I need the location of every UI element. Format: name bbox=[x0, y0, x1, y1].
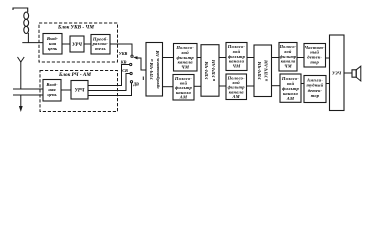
dashed block Блок УКВ-ЧМ bbox=[39, 23, 118, 62]
antenna W2 (AM whip) bbox=[18, 57, 25, 89]
svg-text:АМ: АМ bbox=[286, 96, 295, 101]
svg-text:АМ: АМ bbox=[231, 94, 240, 99]
wire switch arm to УПЧ-ЧМ и преобразователь АМ bbox=[137, 58, 146, 70]
wire whip to input circuit AM bbox=[13, 88, 43, 90]
svg-text:ЧМ: ЧМ bbox=[233, 64, 242, 69]
dashed block Блок РЧ-АМ bbox=[40, 71, 118, 112]
wire bbox=[84, 43, 91, 45]
wire U3 to FM filter 3 bbox=[272, 57, 280, 59]
svg-text:Блок УКВ - ЧМ: Блок УКВ - ЧМ bbox=[57, 24, 94, 30]
box AM band filter 1 (Полосовой фильтр канала АМ) bbox=[173, 75, 194, 101]
svg-text:УПЧ-ЧМ и: УПЧ-ЧМ и bbox=[149, 59, 154, 80]
wire U2 to FM filter 2 bbox=[219, 57, 226, 59]
wire FM filter 3 to frequency detector bbox=[297, 57, 304, 59]
loudspeaker BA1 bbox=[352, 66, 361, 81]
wire FM filter 2 to U3 bbox=[247, 57, 254, 59]
box УРЧ (AM RF amp) bbox=[71, 81, 88, 100]
box frequency detector (Частотный детектор) bbox=[304, 44, 326, 68]
wire to AM filter 1 bbox=[163, 86, 174, 88]
wire AM output 3 to contact ДВ bbox=[88, 83, 132, 96]
svg-text:ЧМ: ЧМ bbox=[181, 65, 190, 70]
svg-text:цепь: цепь bbox=[47, 92, 56, 97]
svg-text:тель: тель bbox=[95, 46, 106, 51]
switch contact УКВ bbox=[131, 55, 133, 57]
switch contact ДВ bbox=[130, 81, 132, 83]
box U1 УПЧ-ЧМ и преобразователь АМ bbox=[146, 43, 163, 97]
svg-text:ДВ: ДВ bbox=[132, 81, 139, 86]
wire frequency detector to УЗЧ bbox=[326, 57, 330, 59]
stray tick bbox=[142, 77, 144, 81]
svg-text:УКВ: УКВ bbox=[119, 51, 128, 56]
switch arm arrow bbox=[133, 56, 137, 59]
wire AM output 1 to contact КВ bbox=[88, 65, 130, 86]
antenna W1 (FM dipole with feeder loops) bbox=[13, 8, 29, 43]
wire to FM filter 1 bbox=[163, 57, 174, 59]
switch contact КВ bbox=[130, 63, 132, 65]
box amplitude detector (Амплитудный детектор) bbox=[304, 76, 326, 103]
svg-text:и УПЧ-АМ: и УПЧ-АМ bbox=[264, 60, 269, 81]
box FM band filter 3 bbox=[279, 43, 297, 72]
box FM band filter 1 (Полосовой фильтр канала ЧМ) bbox=[174, 44, 198, 72]
box input circuit FM (Входная цепь) bbox=[43, 34, 62, 55]
wire converter to switch contact УКВ bbox=[110, 44, 132, 55]
svg-text:УЗЧ: УЗЧ bbox=[332, 71, 342, 76]
ground arrow bbox=[19, 95, 23, 112]
wire AM filter 1 to U2 bbox=[194, 85, 201, 87]
box УЗЧ (audio amplifier) bbox=[330, 35, 345, 111]
svg-text:тор: тор bbox=[310, 59, 319, 64]
wire U3 to AM filter 3 bbox=[272, 85, 281, 87]
wire U2 to AM filter 2 bbox=[219, 85, 226, 87]
svg-text:цепь: цепь bbox=[48, 46, 57, 51]
svg-text:Блок РЧ - АМ: Блок РЧ - АМ bbox=[58, 72, 91, 78]
svg-text:УПЧ-ЧМ: УПЧ-ЧМ bbox=[257, 62, 262, 80]
svg-text:УРЧ: УРЧ bbox=[75, 89, 85, 94]
wire FM filter 1 to U2 bbox=[197, 57, 201, 59]
wire bbox=[62, 43, 70, 45]
box FM band filter 2 bbox=[226, 43, 247, 71]
box AM band filter 2 bbox=[226, 74, 247, 100]
svg-text:и УПЧ-АМ: и УПЧ-АМ bbox=[211, 60, 216, 81]
svg-text:СВ: СВ bbox=[122, 68, 128, 73]
box U2 УПЧ-ЧМ и УПЧ-АМ bbox=[201, 45, 219, 96]
svg-text:тор: тор bbox=[311, 93, 320, 98]
wire amplitude detector to УЗЧ bbox=[326, 83, 330, 85]
wire AM filter 2 to U3 bbox=[247, 85, 255, 87]
box input circuit AM (Входная цепь) bbox=[43, 80, 61, 102]
box Преобразователь (FM converter) bbox=[91, 35, 110, 55]
svg-text:УРЧ: УРЧ bbox=[72, 43, 82, 48]
wire AM output 2 to contact СВ bbox=[88, 74, 130, 91]
wire antenna to input circuit FM bbox=[22, 42, 43, 44]
wire AM filter 3 to amplitude detector bbox=[301, 83, 304, 85]
wire bbox=[61, 89, 71, 91]
svg-text:АМ: АМ bbox=[179, 95, 188, 100]
svg-text:УПЧ-ЧМ: УПЧ-ЧМ bbox=[204, 61, 209, 79]
box U3 УПЧ-ЧМ и УПЧ-АМ bbox=[254, 45, 272, 97]
switch contact СВ bbox=[130, 72, 132, 74]
svg-text:преобразователь АМ: преобразователь АМ bbox=[155, 50, 160, 88]
box УРЧ (FM RF amp) bbox=[70, 36, 84, 52]
wire second input line bbox=[13, 94, 43, 96]
svg-text:ЧМ: ЧМ bbox=[284, 64, 292, 69]
svg-text:КВ: КВ bbox=[120, 59, 127, 64]
box AM band filter 3 bbox=[280, 74, 301, 102]
wire УЗЧ to loudspeaker bbox=[344, 72, 352, 74]
